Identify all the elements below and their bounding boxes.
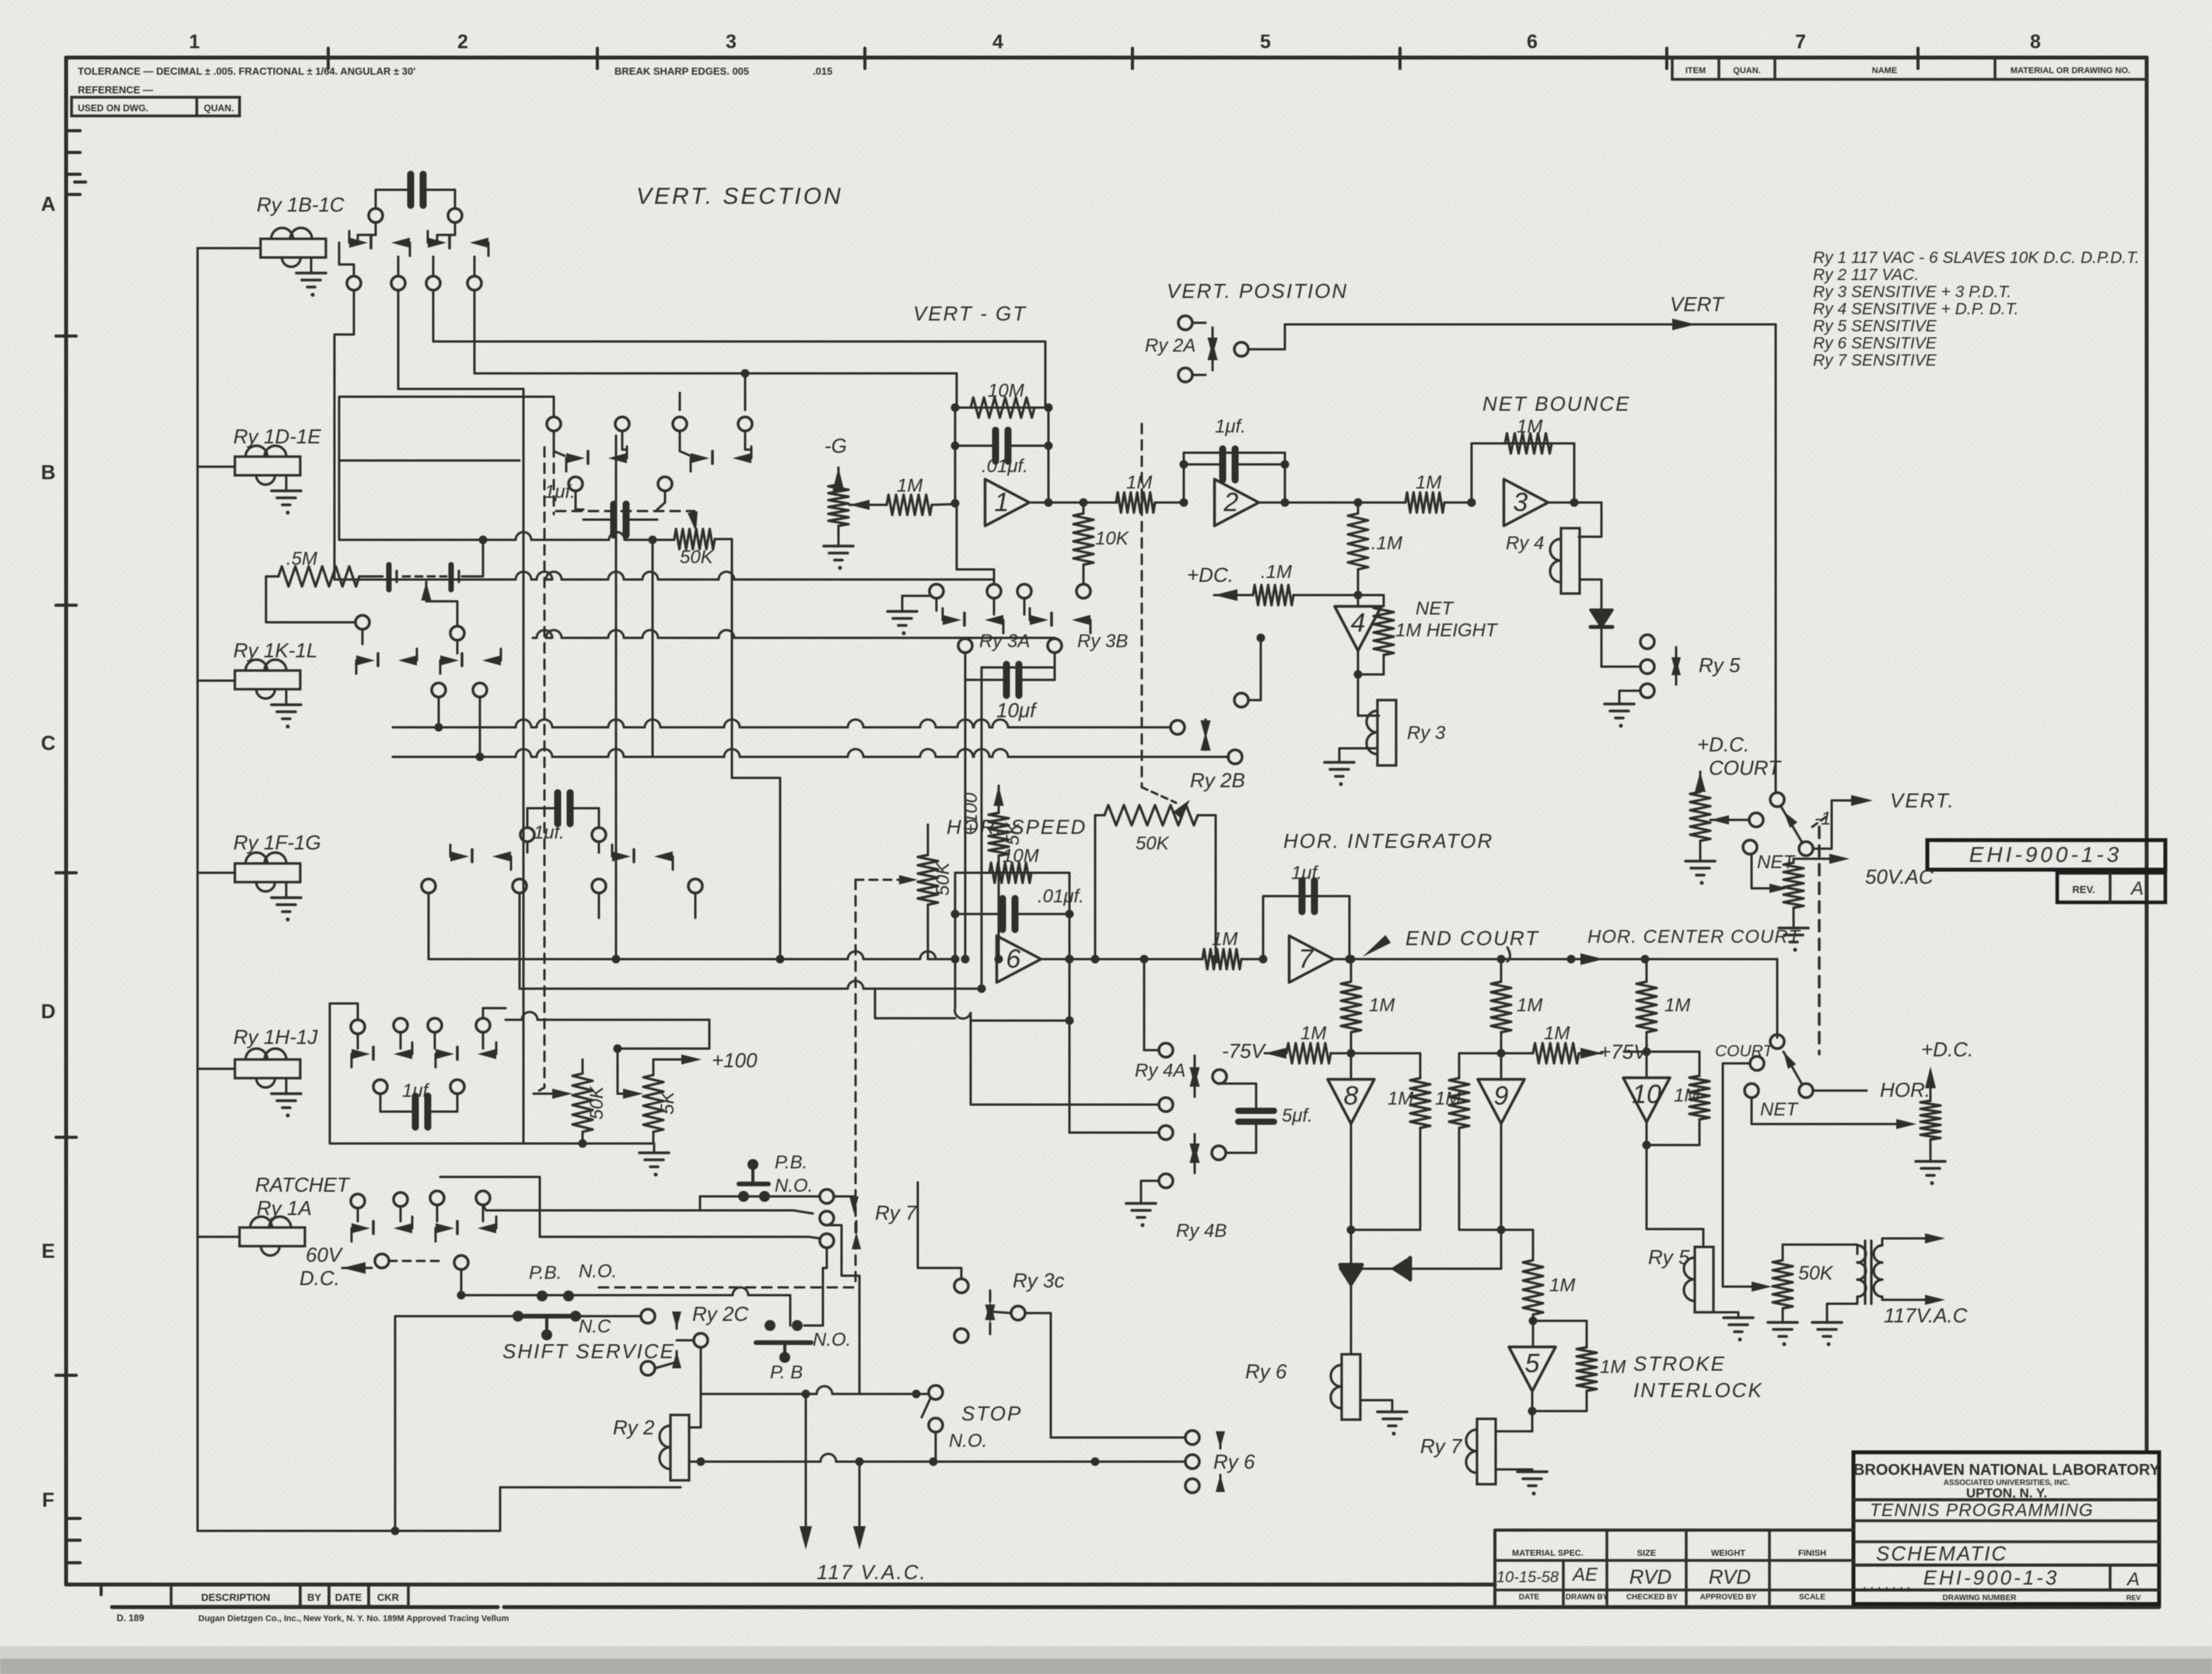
svg-text:COURT: COURT [1709, 756, 1782, 779]
svg-text:HOR.: HOR. [1880, 1078, 1930, 1101]
svg-text:Ry 1B-1C: Ry 1B-1C [257, 193, 345, 216]
svg-text:CKR: CKR [377, 1592, 400, 1603]
svg-text:+100: +100 [712, 1049, 758, 1072]
svg-text:7: 7 [1298, 944, 1314, 974]
svg-text:1: 1 [994, 488, 1009, 517]
bus VERT top [1285, 319, 1776, 350]
label +D.C. lower [1921, 1038, 1973, 1061]
svg-text:DESCRIPTION: DESCRIPTION [201, 1592, 271, 1603]
svg-text:BY: BY [307, 1592, 321, 1603]
svg-text:END COURT: END COURT [1405, 926, 1539, 950]
resistor 1M right of amp8 [1351, 1053, 1430, 1128]
svg-text:WEIGHT: WEIGHT [1711, 1549, 1745, 1558]
NET contact lower [1745, 1084, 1799, 1120]
op-amp 5 [1509, 1321, 1556, 1392]
svg-text:SCALE: SCALE [1799, 1593, 1825, 1602]
left bus wire down from Ry1B coil [198, 248, 681, 1531]
50K pot mid-right [1091, 800, 1220, 964]
title block frame [1853, 1452, 2159, 1604]
transformer T1 [1857, 1241, 1882, 1304]
wires from cluster Ry1K-1L [435, 697, 485, 762]
svg-text:Ry 3 SENSITIVE + 3 P.D.T.: Ry 3 SENSITIVE + 3 P.D.T. [1813, 283, 2011, 301]
resistor 10M amp6 [989, 846, 1039, 883]
svg-text:1M: 1M [1126, 472, 1152, 493]
NET pot [1752, 854, 1850, 952]
pot +DC court [1685, 772, 1763, 885]
svg-text:2: 2 [1223, 488, 1238, 517]
resistor 1M above amp10 [1636, 959, 1690, 1056]
wire switch to VERT out [1813, 795, 1873, 849]
svg-text:.1M: .1M [1371, 533, 1402, 554]
svg-text:1M: 1M [1600, 1357, 1626, 1378]
wire bus to Ry7 contacts [793, 1210, 820, 1238]
svg-text:N.O.: N.O. [775, 1175, 813, 1196]
wire coil Ry1D to rail [198, 466, 235, 468]
svg-text:F: F [42, 1488, 54, 1511]
svg-text:HOR. CENTER COURT: HOR. CENTER COURT [1587, 926, 1801, 947]
svg-text:DATE: DATE [1519, 1593, 1540, 1602]
ground Ry3 [1325, 748, 1377, 786]
svg-text:1M: 1M [1664, 995, 1690, 1016]
svg-text:INTERLOCK: INTERLOCK [1633, 1378, 1763, 1402]
svg-text:HOR. INTEGRATOR: HOR. INTEGRATOR [1283, 829, 1493, 853]
svg-text:Ry 2: Ry 2 [613, 1416, 655, 1439]
wire amp1 output [1031, 499, 1117, 507]
svg-text:1M: 1M [1369, 995, 1395, 1016]
label VERT out [1890, 789, 1955, 812]
svg-text:1M: 1M [1674, 1085, 1699, 1106]
svg-text:E: E [41, 1239, 54, 1263]
svg-text:.1M: .1M [1261, 562, 1292, 583]
ground below 5K lower [639, 1143, 669, 1177]
svg-text:Ry 6: Ry 6 [1245, 1360, 1287, 1383]
svg-text:RVD: RVD [1709, 1565, 1751, 1588]
svg-text:N.C: N.C [579, 1316, 611, 1337]
column zone numbers [189, 31, 2041, 53]
svg-text:STROKE: STROKE [1633, 1352, 1726, 1375]
amp 2 feedback [1180, 416, 1290, 507]
resistor 1M amp1-amp2 [1048, 472, 1188, 513]
label HOR [1880, 1078, 1930, 1101]
svg-text:Ry 5: Ry 5 [1699, 653, 1741, 677]
svg-text:Ry 3B: Ry 3B [1077, 631, 1128, 652]
Ry2C contact [641, 1302, 748, 1375]
row zone letters [41, 192, 56, 1511]
svg-text:1μf.: 1μf. [1291, 863, 1322, 884]
svg-text:8: 8 [1344, 1081, 1359, 1111]
label Ry3c [1013, 1269, 1064, 1292]
trim line [112, 1606, 2159, 1609]
svg-text:NET BOUNCE: NET BOUNCE [1482, 392, 1630, 415]
wire Ry3c to Ry6 contact [1025, 1313, 1185, 1438]
svg-text:Ry 7: Ry 7 [1420, 1434, 1463, 1458]
svg-text:+D.C.: +D.C. [1697, 733, 1749, 756]
svg-text:1M: 1M [1517, 995, 1542, 1016]
wire amp4 output [1354, 651, 1384, 716]
svg-text:VERT. POSITION: VERT. POSITION [1167, 279, 1348, 303]
+DC arrow [1187, 563, 1253, 601]
svg-text:DATE: DATE [335, 1592, 362, 1603]
used-on-dwg table [72, 97, 240, 116]
+100 arrow mid [961, 786, 1004, 835]
approval table [1495, 1530, 1853, 1604]
resistor 10K [1073, 503, 1129, 598]
amp 3 feedback [1468, 416, 1579, 507]
svg-text:10μf: 10μf [996, 699, 1038, 722]
Ry3c contact [954, 1279, 1025, 1343]
wire coil Ry1H to rail [198, 1068, 235, 1070]
label +D.C. COURT [1697, 733, 1782, 779]
svg-text:D: D [41, 1000, 56, 1023]
svg-text:1M: 1M [1517, 416, 1542, 437]
row tick marks [56, 131, 101, 1595]
svg-text:VERT.: VERT. [1890, 789, 1955, 812]
svg-text:Ry 7: Ry 7 [875, 1201, 918, 1224]
svg-text:Ry 5: Ry 5 [1648, 1245, 1690, 1269]
svg-text:1μf.: 1μf. [544, 482, 576, 503]
svg-text:1μf.: 1μf. [402, 1080, 433, 1101]
svg-text:1M: 1M [897, 475, 922, 496]
wire amp9 to stroke interlock [1501, 1230, 1533, 1260]
tolerance note [78, 65, 832, 96]
svg-text:. . . . . . .: . . . . . . . [1863, 1577, 1910, 1592]
svg-text:REV: REV [2126, 1594, 2141, 1602]
svg-text:EHI-900-1-3: EHI-900-1-3 [1969, 842, 2123, 867]
svg-text:SIZE: SIZE [1637, 1549, 1656, 1558]
wire amp3 output [1549, 503, 1601, 537]
svg-text:Ry 1F-1G: Ry 1F-1G [233, 831, 321, 854]
svg-text:Ry 4 SENSITIVE + D.P. D.T.: Ry 4 SENSITIVE + D.P. D.T. [1813, 300, 2018, 318]
svg-text:Ry 3c: Ry 3c [1013, 1269, 1064, 1292]
label 60V D.C. [299, 1243, 372, 1290]
svg-text:-G: -G [824, 434, 847, 457]
relay coil Ry 1K-1L [233, 639, 317, 729]
relay coil Ry4 [1506, 528, 1580, 594]
resistor 1M below amp7 [1341, 959, 1395, 1058]
svg-text:1M HEIGHT: 1M HEIGHT [1395, 620, 1499, 641]
bus HOR CENTER COURT [1335, 954, 1777, 965]
svg-text:CHECKED BY: CHECKED BY [1626, 1593, 1678, 1602]
svg-text:FINISH: FINISH [1798, 1549, 1826, 1558]
contact cluster Ry1D-1E [544, 417, 752, 535]
svg-text:1M: 1M [1212, 929, 1237, 950]
svg-text:TENNIS PROGRAMMING: TENNIS PROGRAMMING [1870, 1500, 2094, 1520]
wire coil Ry1K to rail [198, 680, 235, 682]
svg-text:6: 6 [1006, 944, 1020, 974]
resistor 1M net height [1358, 595, 1499, 655]
dashed feed 50K upper [556, 511, 695, 518]
svg-text:1M: 1M [1435, 1088, 1461, 1109]
5K pot mid pair [989, 813, 1024, 964]
svg-text:10M: 10M [1003, 846, 1039, 867]
wire +75V to amp10 [1624, 1051, 1647, 1053]
wires PB3 bus verticals [790, 1225, 859, 1394]
svg-text:Ry 6: Ry 6 [1213, 1450, 1255, 1473]
svg-text:+DC.: +DC. [1187, 563, 1234, 587]
svg-text:A: A [2126, 1569, 2140, 1590]
svg-text:QUAN.: QUAN. [1733, 66, 1760, 75]
wire NC to Ry2C [579, 1309, 655, 1323]
wire amp6 to amp7 [1042, 955, 1202, 964]
svg-text:VERT - GT: VERT - GT [913, 302, 1027, 325]
contact cluster Ry1F-1G [422, 793, 702, 893]
svg-text:1M: 1M [1300, 1023, 1326, 1044]
bus B to Ry2B [393, 749, 1229, 757]
wire .5M loop [266, 576, 355, 622]
svg-text:EHI-900-1-3: EHI-900-1-3 [1923, 1566, 2060, 1589]
svg-text:.01μf.: .01μf. [1038, 886, 1084, 907]
Ry4A contact [1135, 1043, 1227, 1112]
wire amp9 output [1459, 1124, 1506, 1269]
5K pot lower [614, 1045, 679, 1144]
svg-text:5: 5 [1525, 1349, 1540, 1378]
resistor 10M amp1 [971, 380, 1034, 418]
wire coil Ry1F to rail [198, 872, 235, 874]
wire amp8 to Ry6 coil [1350, 1285, 1353, 1354]
label COURT lower [1715, 1042, 1774, 1060]
wires from cluster Ry1F-1G [429, 893, 700, 989]
svg-text:P.B.: P.B. [775, 1152, 807, 1173]
wires from cluster Ry1D-1E [339, 369, 750, 541]
battery arrow [422, 582, 458, 626]
relay coil Ry5 [1648, 1245, 1713, 1312]
svg-text:NAME: NAME [1872, 66, 1897, 75]
svg-text:AE: AE [1571, 1564, 1598, 1585]
svg-text:5: 5 [1260, 31, 1271, 53]
VERT selector switch [1770, 793, 1831, 856]
svg-text:USED ON DWG.: USED ON DWG. [78, 103, 149, 114]
label NET BOUNCE [1482, 392, 1630, 415]
bus VERT-GT [334, 572, 994, 584]
op-amp 10 [1623, 1052, 1670, 1122]
svg-text:1μf.: 1μf. [534, 822, 565, 843]
relay coil Ry 1D-1E [233, 425, 321, 515]
capacitor .01uf amp6 [955, 886, 1084, 930]
dashed program lines [537, 424, 1176, 1287]
ground Ry4B [1126, 1181, 1159, 1227]
label 117 V.A.C. [817, 1560, 927, 1584]
op-amp 3 [1504, 479, 1549, 526]
dashed link ratchet [389, 1260, 440, 1263]
ground Ry6 [1360, 1400, 1407, 1436]
svg-text:1M: 1M [1544, 1023, 1570, 1044]
ground Ry5 coil [1713, 1312, 1753, 1342]
battery cell 2 [403, 565, 459, 590]
Ry6 contact [1185, 1431, 1255, 1493]
push button PB3 [756, 1320, 851, 1383]
svg-text:Ry 4A: Ry 4A [1135, 1060, 1185, 1081]
bus PB row [701, 1386, 929, 1399]
label RATCHET Ry1A [255, 1173, 351, 1220]
transformer secondary wires [1882, 1234, 1945, 1305]
svg-text:UPTON, N. Y.: UPTON, N. Y. [1966, 1486, 2047, 1501]
vellum fine print [117, 1613, 509, 1623]
svg-text:C: C [41, 731, 56, 755]
push button PB2 shift service [513, 1261, 617, 1340]
label 50V.AC [1865, 865, 1934, 888]
svg-text:50K: 50K [680, 547, 714, 568]
wire Ry4A top feed [1140, 955, 1160, 1051]
wire COURT to 50K pot [1723, 1063, 1772, 1292]
svg-text:Ry 4: Ry 4 [1506, 533, 1544, 554]
wire Ry3B bottom to HOR bus [978, 653, 1055, 993]
Ry2A contact [1145, 316, 1285, 382]
svg-text:SHIFT SERVICE: SHIFT SERVICE [502, 1340, 675, 1363]
svg-text:ITEM: ITEM [1685, 66, 1706, 75]
50K output pot [1768, 1245, 1857, 1347]
resistor 1M to +75V [1501, 1023, 1602, 1063]
label END COURT [1363, 926, 1539, 961]
bus A to Ry2B [393, 720, 1171, 727]
resistor 1M stroke feed [1523, 1260, 1575, 1326]
svg-text:P. B: P. B [770, 1362, 803, 1383]
capacitor 10uf [965, 653, 1055, 722]
Ry4B contact [1159, 1126, 1227, 1241]
diode below amp8 [1340, 1230, 1362, 1285]
svg-text:Dugan Dietzgen Co., Inc., New: Dugan Dietzgen Co., Inc., New York, N. Y… [198, 1614, 509, 1623]
svg-text:117V.A.C: 117V.A.C [1884, 1304, 1968, 1327]
svg-text:APPROVED BY: APPROVED BY [1700, 1593, 1757, 1602]
svg-text:1M: 1M [1388, 1088, 1413, 1109]
svg-text:1M: 1M [1549, 1275, 1575, 1296]
svg-text:1: 1 [189, 31, 200, 53]
svg-text:P.B.: P.B. [529, 1263, 562, 1284]
svg-text:1μf.: 1μf. [1215, 416, 1246, 437]
amp 7 feedback [1263, 863, 1354, 964]
svg-text:DRAWING NUMBER: DRAWING NUMBER [1943, 1594, 2018, 1602]
contact cluster ratchet Ry1A [351, 1191, 496, 1270]
svg-text:Ry 2C: Ry 2C [692, 1302, 748, 1326]
op-amp 7 [1290, 936, 1334, 982]
resistor 1M left of amp9 [1435, 1053, 1501, 1128]
label STROKE INTERLOCK [1633, 1352, 1763, 1402]
svg-text:B: B [41, 461, 56, 484]
svg-text:REFERENCE —: REFERENCE — [78, 84, 153, 96]
svg-text:N.O.: N.O. [949, 1431, 987, 1452]
op-amp 4 [1335, 595, 1381, 651]
svg-text:VERT. SECTION: VERT. SECTION [636, 184, 843, 209]
svg-text:BROOKHAVEN NATIONAL LABORATORY: BROOKHAVEN NATIONAL LABORATORY [1853, 1462, 2161, 1479]
capacitor 5uf [1220, 1084, 1313, 1153]
svg-text:MATERIAL SPEC.: MATERIAL SPEC. [1512, 1549, 1584, 1558]
svg-text:SCHEMATIC: SCHEMATIC [1876, 1542, 2007, 1565]
wire amp1 box bottom [957, 503, 994, 584]
relay coil Ry1A [240, 1217, 305, 1255]
svg-text:RVD: RVD [1629, 1565, 1671, 1588]
svg-text:3: 3 [726, 31, 737, 53]
op-amp 6 [997, 936, 1041, 982]
NET contact circle [1743, 840, 1796, 873]
transformer primary bottom [1812, 1297, 1857, 1347]
relay notes [1813, 249, 2140, 369]
svg-text:1M: 1M [1416, 472, 1441, 493]
amp 6 feedback box [951, 873, 1074, 1025]
svg-text:50K: 50K [1136, 833, 1170, 854]
svg-text:N.O.: N.O. [813, 1329, 851, 1350]
svg-text:VERT: VERT [1670, 292, 1725, 316]
label VERT top [1670, 292, 1725, 316]
label HOR. SPEED [947, 815, 1087, 839]
contact cluster Ry1H-1J [351, 1018, 496, 1127]
title block text [1853, 1462, 2161, 1602]
svg-text:D.C.: D.C. [299, 1266, 340, 1290]
svg-text:D. 189: D. 189 [117, 1613, 145, 1623]
svg-text:5K: 5K [657, 1091, 678, 1114]
svg-text:Ry 1H-1J: Ry 1H-1J [233, 1025, 318, 1049]
bus 117VAC row [689, 1454, 1185, 1466]
svg-text:A: A [2130, 878, 2144, 899]
Ry5 contact [1601, 635, 1741, 698]
wire amp5 output [1528, 1391, 1587, 1416]
svg-text:50K: 50K [1798, 1263, 1834, 1284]
relay coil Ry2 [613, 1394, 701, 1480]
drawing number box [1927, 840, 2165, 870]
svg-text:N.O.: N.O. [579, 1261, 617, 1282]
battery cell 1 [389, 565, 397, 590]
wire amp10 to Ry5 coil [1647, 1145, 1703, 1247]
label VERT-GT [913, 302, 1027, 325]
bus to Ry3B [533, 630, 1055, 639]
wire x839 to bus2 [652, 540, 654, 757]
diode horizontal [1351, 1258, 1501, 1280]
svg-text:Ry 2A: Ry 2A [1145, 335, 1195, 356]
diode CR1 [1591, 610, 1612, 667]
resistor 1M input [849, 475, 960, 515]
svg-text:5μf.: 5μf. [1282, 1105, 1313, 1126]
label SHIFT SERVICE [502, 1340, 675, 1363]
HOR selector switch [1770, 1035, 1867, 1098]
wires from cluster Ry1H-1J [330, 1003, 709, 1143]
contact cluster Ry1B-1C [339, 174, 488, 290]
wires from ratchet cluster [440, 1177, 809, 1300]
wire HOR bus to COURT switch [1776, 959, 1779, 1038]
svg-text:10K: 10K [1095, 528, 1129, 549]
bus to amp6 input [700, 951, 955, 959]
svg-text:117 V.A.C.: 117 V.A.C. [817, 1560, 927, 1584]
wire amp2 output [1260, 499, 1405, 507]
svg-text:QUAN.: QUAN. [204, 103, 234, 114]
Ry3A Ry3B contacts [929, 584, 1128, 653]
svg-text:COURT: COURT [1715, 1042, 1774, 1060]
op-amp 2 [1215, 479, 1259, 526]
svg-text:8: 8 [2030, 31, 2041, 53]
wire shift service to lower rail [391, 1316, 516, 1536]
rev box [2057, 873, 2165, 902]
resistor 1M above amp9 [1491, 959, 1542, 1058]
STOP switch [922, 1385, 987, 1462]
relay coil Ry 1F-1G [233, 831, 321, 922]
wire Ry3A bottom to HOR bus [961, 653, 970, 964]
push button PB1 [738, 1152, 813, 1202]
.5M resistor [278, 548, 383, 587]
svg-text:TOLERANCE — DECIMAL ± .005.: TOLERANCE — DECIMAL ± .005. FRACTIONAL ±… [78, 65, 415, 77]
117VAC drop arrows [800, 1394, 866, 1550]
op-amp 1 [985, 479, 1030, 526]
wire Ry3c feed [918, 1182, 961, 1279]
amp 1 feedback box [951, 404, 1053, 507]
vertical bus wires [523, 436, 621, 1143]
Ry7 contact [820, 1196, 918, 1249]
label HOR. INTEGRATOR [1283, 829, 1493, 853]
svg-text:Ry 7 SENSITIVE: Ry 7 SENSITIVE [1813, 352, 1937, 369]
svg-text:-1: -1 [1815, 808, 1831, 829]
svg-text:Ry 3A: Ry 3A [979, 631, 1030, 652]
wire Ry2C pivot down [700, 1347, 702, 1394]
svg-text:Ry 2B: Ry 2B [1190, 769, 1245, 792]
svg-text:BREAK SHARP EDGES. 005: BREAK SHARP EDGES. 005 [614, 65, 749, 77]
op-amp 9 [1478, 1053, 1524, 1124]
svg-text:Ry 6 SENSITIVE: Ry 6 SENSITIVE [1813, 334, 1937, 352]
